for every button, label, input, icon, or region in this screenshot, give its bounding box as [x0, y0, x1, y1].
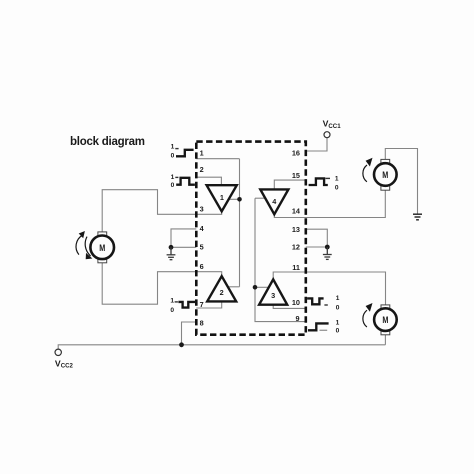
wire bottom-right motor to rail — [384, 335, 386, 345]
wire pin7 to amp2 input — [196, 302, 221, 309]
rotation arrow M2 — [363, 165, 367, 182]
wire enable branch to amp 1 — [229, 198, 240, 200]
svg-text:1: 1 — [220, 193, 224, 202]
wire pin4 external — [171, 229, 196, 247]
svg-text:0: 0 — [171, 152, 175, 159]
svg-text:15: 15 — [292, 171, 300, 180]
waveform S15 at pin 15 (pulse) — [309, 178, 328, 185]
IC dashed box — [196, 142, 305, 335]
svg-text:M: M — [382, 170, 388, 180]
wire enable branch to amp 2 — [228, 286, 240, 288]
wire pin1 net horizontal — [196, 158, 239, 160]
svg-text:0: 0 — [336, 327, 340, 334]
rotation arrows M1 (bidirectional) — [76, 235, 91, 256]
junction dot amp1 enable — [237, 197, 242, 202]
svg-text:1: 1 — [171, 174, 175, 181]
wire enable branch to amp 4 — [255, 197, 266, 199]
Vcc1 terminal — [324, 132, 330, 138]
junction dot Vcc2 rail / pin8 — [179, 342, 184, 347]
junction dot amp3 enable — [253, 285, 258, 290]
op-amp U3 — [259, 279, 287, 304]
rotation arrow M3 — [363, 310, 367, 327]
wire pin1 net vertical (enable amps 1,2) — [239, 159, 241, 287]
svg-text:5: 5 — [200, 242, 204, 251]
svg-text:7: 7 — [200, 300, 204, 309]
level dash S15 — [326, 177, 331, 179]
wire pin15 to amp4 input — [274, 180, 306, 189]
svg-text:14: 14 — [292, 206, 301, 215]
wire top-right motor to ground — [385, 149, 417, 215]
wire pin2 to amp1 input — [196, 177, 221, 185]
wire enable branch to amp 3 — [255, 286, 269, 288]
motor M2 (top right) — [374, 159, 397, 190]
svg-text:0: 0 — [336, 304, 340, 311]
wire pin10 to amp3 input — [273, 305, 306, 309]
svg-text:2: 2 — [220, 288, 224, 297]
level dash S9 (gray) — [320, 329, 328, 331]
wire amp2 output to pin6 and left motor bottom — [102, 263, 222, 304]
svg-text:3: 3 — [200, 204, 204, 213]
svg-text:1: 1 — [170, 297, 174, 304]
svg-text:1: 1 — [171, 143, 175, 150]
wire pin12 external — [306, 246, 328, 248]
svg-text:11: 11 — [292, 263, 300, 272]
level dash S1 — [175, 148, 178, 150]
svg-text:8: 8 — [200, 318, 204, 327]
svg-text:1: 1 — [336, 295, 340, 302]
op-amp U2 — [207, 276, 236, 301]
svg-text:2: 2 — [200, 165, 204, 174]
wire Vcc2 rail — [58, 345, 385, 349]
svg-text:10: 10 — [292, 298, 300, 307]
ground G2 (pins 12,13) — [323, 247, 332, 259]
svg-text:M: M — [382, 315, 388, 325]
waveform S9 at pin 9 (step up) — [308, 323, 329, 330]
level dash S2 — [175, 176, 178, 178]
svg-text:12: 12 — [292, 243, 300, 252]
svg-text:1: 1 — [336, 319, 340, 326]
ground G1 (pins 4,5) — [167, 247, 176, 259]
wire pin9 enable net vertical (amps 3,4) — [255, 198, 306, 321]
svg-text:0: 0 — [170, 307, 174, 314]
svg-text:16: 16 — [292, 149, 300, 158]
svg-text:3: 3 — [271, 291, 275, 300]
junction dot right ground — [325, 245, 330, 250]
level dash S7 — [175, 301, 178, 303]
motor M1 (left) — [90, 232, 114, 263]
waveform S10 at pin 10 (notch) — [307, 298, 324, 304]
ground G3 (top-right motor) — [413, 214, 422, 220]
wire pin16 to Vcc1 — [306, 138, 327, 151]
wire pin5 external — [171, 246, 196, 248]
svg-text:block diagram: block diagram — [70, 136, 145, 148]
op-amp U1 — [207, 185, 237, 211]
svg-text:13: 13 — [292, 225, 300, 234]
Vcc2 terminal — [55, 349, 61, 355]
wire amp1 output to pin3 and left motor top — [102, 190, 222, 232]
level dash S10 — [324, 304, 327, 306]
waveform S7 at pin 7 (notch) — [178, 302, 196, 308]
motor M3 (bottom right) — [374, 305, 397, 335]
svg-text:9: 9 — [295, 314, 299, 323]
svg-text:1: 1 — [200, 148, 204, 157]
svg-text:1: 1 — [335, 176, 339, 183]
waveform S2 at pin 2 (pulse) — [176, 178, 195, 185]
op-amp U4 — [260, 189, 288, 214]
svg-text:M: M — [99, 243, 105, 253]
wire amp3 output to pin11 and bottom-right motor — [273, 272, 385, 306]
wire pin8 to Vcc2 rail — [182, 322, 197, 345]
svg-text:0: 0 — [335, 185, 339, 192]
junction dot left ground — [169, 245, 174, 250]
wire amp4 output to pin14 and top-right motor — [274, 190, 385, 218]
waveform S1 at pin 1 (step up) — [176, 150, 194, 157]
svg-text:6: 6 — [200, 262, 204, 271]
wire pin13 external — [306, 229, 328, 247]
svg-text:0: 0 — [171, 182, 175, 189]
